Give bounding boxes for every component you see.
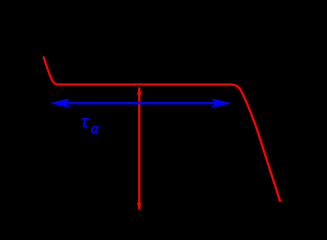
svg-text:α: α [91,121,100,137]
svg-text:τ: τ [81,110,89,132]
